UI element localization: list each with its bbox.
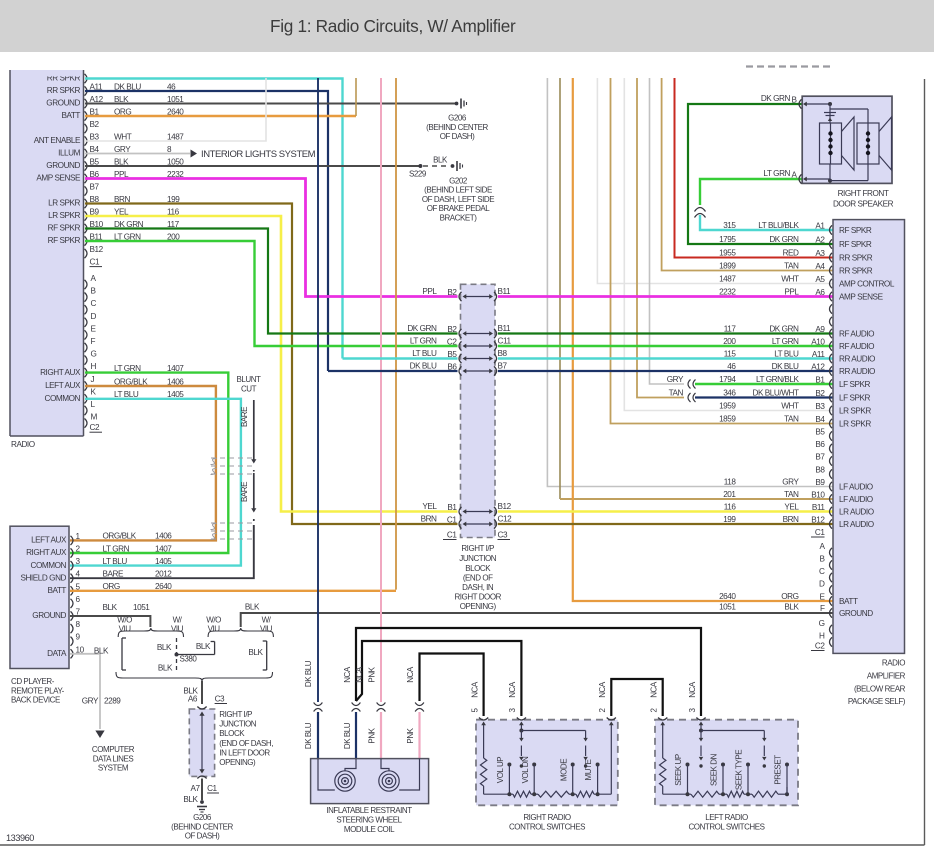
- svg-text:H: H: [91, 362, 97, 371]
- svg-text:1051: 1051: [167, 95, 184, 104]
- svg-text:MODE: MODE: [559, 759, 568, 781]
- wire WHT 1487 top to amp A5: [597, 78, 833, 284]
- svg-text:DASH, IN: DASH, IN: [462, 583, 494, 592]
- svg-text:SYSTEM: SYSTEM: [98, 764, 129, 773]
- svg-text:DK GRN: DK GRN: [407, 324, 437, 333]
- svg-text:DK GRN: DK GRN: [769, 324, 799, 333]
- svg-text:RIGHT RADIO: RIGHT RADIO: [523, 813, 571, 822]
- svg-text:LF SPKR: LF SPKR: [839, 380, 871, 389]
- cd player pins and labels: [20, 532, 172, 659]
- coil connector PNK: [368, 666, 386, 758]
- svg-text:DK GRN: DK GRN: [769, 235, 799, 244]
- computer data lines system label: [92, 745, 135, 773]
- svg-text:C: C: [91, 299, 97, 308]
- svg-text:OF DASH): OF DASH): [185, 832, 220, 841]
- svg-text:MODULE COIL: MODULE COIL: [344, 825, 395, 834]
- wire DK BLU/WHT 346 splice to amp B2: [695, 396, 833, 398]
- right switches tap MUTE: [584, 759, 599, 796]
- svg-text:CONTROL SWITCHES: CONTROL SWITCHES: [509, 823, 585, 832]
- cable shield dashes: [211, 458, 257, 540]
- wire AMP SENSE PPL 2232 radio B6 to junction B2: [85, 179, 458, 297]
- svg-text:RR SPKR: RR SPKR: [47, 86, 81, 95]
- option segment BLK w viu 2: [248, 641, 266, 670]
- wire ILLUM GRY 8 radio B4 to interior lights: [85, 153, 190, 155]
- svg-text:RR SPKR: RR SPKR: [839, 254, 873, 263]
- svg-text:TAN: TAN: [669, 388, 684, 397]
- sir coil internal wiring: [318, 759, 420, 790]
- svg-text:W/: W/: [262, 616, 272, 625]
- svg-text:RR AUDIO: RR AUDIO: [839, 367, 875, 376]
- wire BRN 199 junction C12 to amp B12: [498, 523, 833, 525]
- svg-text:AMPLIFIER: AMPLIFIER: [867, 671, 906, 680]
- ground G206 bottom: [171, 800, 233, 841]
- svg-text:JUNCTION: JUNCTION: [219, 720, 257, 729]
- svg-text:1955: 1955: [719, 248, 736, 257]
- left switches label: [688, 813, 764, 832]
- svg-text:B7: B7: [498, 362, 508, 371]
- wire YEL 116 junction B12 to amp B11: [498, 510, 833, 513]
- left switches switch arms: [699, 729, 767, 768]
- svg-text:SEEK TYPE: SEEK TYPE: [735, 750, 744, 790]
- wire RR SPKR DK BLU 46 radio A11 to junction B6: [85, 91, 328, 371]
- wire DATA GRY 2289 CD pin 10 to computer data lines: [70, 654, 121, 738]
- svg-text:(BEHIND LEFT SIDE: (BEHIND LEFT SIDE: [424, 186, 492, 195]
- svg-text:(END OF DASH,: (END OF DASH,: [219, 739, 273, 748]
- svg-text:LT GRN: LT GRN: [103, 544, 130, 553]
- svg-text:RADIO: RADIO: [882, 659, 905, 668]
- wire DK BLU from top to SIR coil connector: [317, 78, 319, 702]
- wire TAN 1899 top to amp A4: [662, 78, 833, 271]
- svg-text:RIGHT AUX: RIGHT AUX: [26, 548, 67, 557]
- svg-text:ANT ENABLE: ANT ENABLE: [34, 136, 81, 145]
- wire NCA coil PNK branch to right radio switches pin 5: [420, 654, 484, 717]
- svg-text:B7: B7: [815, 453, 825, 462]
- svg-text:MUTE: MUTE: [584, 759, 593, 780]
- svg-text:WHT: WHT: [781, 401, 799, 410]
- svg-text:STEERING WHEEL: STEERING WHEEL: [336, 816, 402, 825]
- svg-text:A2: A2: [815, 236, 825, 245]
- twisted pair marker: [695, 208, 706, 218]
- top crop mask: [0, 52, 934, 70]
- title text: [270, 16, 516, 36]
- svg-text:GROUND: GROUND: [46, 99, 80, 108]
- left switches pin 3: [688, 681, 706, 730]
- svg-text:PPL: PPL: [422, 287, 437, 296]
- svg-text:RIGHT AUX: RIGHT AUX: [40, 368, 81, 377]
- svg-text:46: 46: [727, 362, 736, 371]
- svg-text:BLOCK: BLOCK: [465, 564, 491, 573]
- junction block 2 label: [219, 710, 273, 767]
- wire DK GRN 1795 amp A2 to speaker B: [688, 104, 833, 244]
- svg-text:LT GRN: LT GRN: [772, 337, 799, 346]
- svg-text:DK BLU/WHT: DK BLU/WHT: [753, 388, 799, 397]
- shield drain wire BARE middle segment: [240, 470, 256, 513]
- junction block 2 top pin: [197, 707, 206, 710]
- wire ORG continuation up from CD pin 5: [395, 78, 397, 590]
- svg-text:F: F: [820, 604, 825, 613]
- svg-text:BLK: BLK: [245, 602, 260, 611]
- diagram id 133960: [6, 833, 34, 843]
- svg-text:JUNCTION: JUNCTION: [459, 554, 497, 563]
- ground option brace 2: [206, 616, 273, 638]
- svg-text:PNK: PNK: [368, 666, 377, 682]
- cd player block label: [11, 677, 65, 705]
- svg-text:OPENING): OPENING): [460, 602, 497, 611]
- svg-text:BARE: BARE: [240, 407, 249, 427]
- wire COMMON LT BLU 1405 radio K to CD pin 3: [70, 399, 241, 566]
- right switches block body: [476, 720, 618, 806]
- svg-text:SEEK UP: SEEK UP: [674, 754, 683, 786]
- svg-text:RF AUDIO: RF AUDIO: [839, 330, 874, 339]
- svg-text:115: 115: [724, 349, 737, 358]
- junction block main bottom pin labels: [443, 531, 510, 540]
- coil connector NCA to DK BLU: [343, 666, 364, 758]
- svg-text:B11: B11: [498, 324, 512, 333]
- svg-text:BATT: BATT: [61, 111, 80, 120]
- svg-text:BLOCK: BLOCK: [219, 729, 245, 738]
- wire LR SPKR YEL 116 radio B9 to junction B1: [85, 216, 458, 512]
- wire GRY to splice at amp B1: [650, 78, 685, 384]
- left switches tap SEEK UP: [674, 754, 689, 796]
- svg-text:118: 118: [724, 477, 737, 486]
- svg-text:LT BLU: LT BLU: [103, 557, 128, 566]
- left switches block body: [655, 720, 798, 806]
- svg-text:G: G: [91, 350, 97, 359]
- sir coil block label: [326, 806, 412, 834]
- svg-text:GROUND: GROUND: [839, 609, 873, 618]
- option segment BLK w/o viu 1: [94, 638, 126, 670]
- svg-text:BRN: BRN: [783, 515, 799, 524]
- svg-text:(BELOW REAR: (BELOW REAR: [854, 684, 906, 693]
- svg-text:SHIELD GND: SHIELD GND: [20, 573, 66, 582]
- svg-text:BARE: BARE: [240, 482, 249, 502]
- speaker block body: [802, 96, 892, 183]
- wire RR SPKR LT BLU (cut row) radio to junction B5: [85, 79, 343, 359]
- option segment dashed with splice S380: [157, 638, 198, 672]
- left switches tap SEEK TYPE: [735, 750, 750, 796]
- wire TAN to splice at amp B2: [637, 78, 684, 398]
- svg-text:OF BRAKE PEDAL: OF BRAKE PEDAL: [427, 204, 491, 213]
- wire label DK GRN B: [761, 94, 791, 103]
- svg-text:BATT: BATT: [47, 586, 66, 595]
- junction block main body: [461, 284, 496, 537]
- svg-text:LT GRN: LT GRN: [763, 169, 790, 178]
- svg-text:1405: 1405: [155, 557, 172, 566]
- svg-text:PPL: PPL: [784, 287, 799, 296]
- wire BLK from brace 2 to amp F: [241, 602, 833, 627]
- wire TAN 201 top to amp B10: [560, 78, 833, 499]
- left switches resistor vertical: [660, 758, 666, 794]
- diagram bottom border: [0, 844, 925, 846]
- svg-text:RR SPKR: RR SPKR: [839, 267, 873, 276]
- svg-text:OPENING): OPENING): [219, 758, 256, 767]
- svg-text:LF SPKR: LF SPKR: [839, 394, 871, 403]
- svg-text:LT GRN/BLK: LT GRN/BLK: [756, 375, 800, 384]
- left switches tap PRESET: [774, 755, 789, 796]
- svg-text:RADIO: RADIO: [11, 440, 35, 449]
- svg-text:GRY: GRY: [667, 375, 684, 384]
- right switches switch arms: [519, 729, 588, 768]
- svg-text:LEFT RADIO: LEFT RADIO: [705, 813, 748, 822]
- svg-text:BLK: BLK: [94, 646, 109, 655]
- svg-text:B2: B2: [90, 120, 100, 129]
- svg-text:LR AUDIO: LR AUDIO: [839, 508, 874, 517]
- wire GRY 118 top to amp B9: [547, 78, 833, 487]
- svg-text:1051: 1051: [719, 603, 736, 612]
- svg-text:AMP CONTROL: AMP CONTROL: [839, 280, 895, 289]
- svg-text:LR SPKR: LR SPKR: [839, 407, 871, 416]
- svg-text:RR AUDIO: RR AUDIO: [839, 355, 875, 364]
- svg-text:ORG/BLK: ORG/BLK: [103, 532, 137, 541]
- svg-text:RIGHT FRONT: RIGHT FRONT: [838, 189, 889, 198]
- svg-text:LF AUDIO: LF AUDIO: [839, 483, 873, 492]
- svg-text:A11: A11: [812, 350, 826, 359]
- shield drain wire BARE 2012 to CD pin 4: [70, 519, 254, 578]
- wire NCA coil to right radio switches pin 3: [356, 641, 521, 716]
- svg-text:RF SPKR: RF SPKR: [839, 226, 872, 235]
- wire GROUND BLK 1050 radio B5 to splice S229: [85, 165, 420, 167]
- svg-text:BLK: BLK: [158, 663, 173, 672]
- svg-text:B5: B5: [447, 350, 457, 359]
- svg-text:BLK: BLK: [103, 603, 118, 612]
- svg-text:LF AUDIO: LF AUDIO: [839, 495, 873, 504]
- right switches pin 3: [508, 681, 526, 730]
- svg-text:NCA: NCA: [598, 681, 607, 698]
- svg-text:INFLATABLE RESTRAINT: INFLATABLE RESTRAINT: [326, 806, 412, 815]
- right switches pin 2: [598, 681, 616, 794]
- svg-text:346: 346: [723, 388, 736, 397]
- svg-text:DK BLU: DK BLU: [304, 722, 313, 749]
- svg-text:B1: B1: [447, 503, 457, 512]
- svg-text:BLUNT: BLUNT: [237, 375, 262, 384]
- junction block main pins: [407, 287, 512, 529]
- svg-text:BLK: BLK: [114, 157, 129, 166]
- svg-text:J: J: [91, 375, 95, 384]
- svg-text:DK BLU: DK BLU: [410, 362, 437, 371]
- svg-text:VOL DN: VOL DN: [521, 756, 530, 783]
- svg-text:LR AUDIO: LR AUDIO: [839, 520, 874, 529]
- svg-text:B6: B6: [815, 440, 825, 449]
- svg-text:NCA: NCA: [650, 681, 659, 698]
- svg-text:C: C: [819, 567, 825, 576]
- svg-text:RIGHT I/P: RIGHT I/P: [219, 710, 252, 719]
- svg-text:AMP SENSE: AMP SENSE: [839, 293, 884, 302]
- svg-text:CONTROL SWITCHES: CONTROL SWITCHES: [688, 823, 764, 832]
- svg-text:B5: B5: [815, 428, 825, 437]
- svg-text:C1: C1: [207, 784, 217, 793]
- junction block 2 pin C3 labels: [183, 687, 227, 704]
- svg-text:C3: C3: [498, 531, 508, 540]
- wire BLK junction block 2 to G206: [183, 779, 202, 805]
- svg-text:NCA: NCA: [406, 666, 415, 683]
- svg-text:BLK: BLK: [114, 95, 129, 104]
- svg-text:LT BLU: LT BLU: [774, 349, 799, 358]
- splice S229: [409, 164, 427, 178]
- svg-text:RF AUDIO: RF AUDIO: [839, 342, 874, 351]
- svg-text:BLK: BLK: [433, 155, 448, 164]
- svg-text:C2: C2: [90, 423, 100, 432]
- wire NCA coil to left radio switches pin 3: [356, 628, 701, 716]
- svg-text:1959: 1959: [719, 401, 736, 410]
- svg-text:C1: C1: [815, 528, 825, 537]
- svg-text:COMMON: COMMON: [44, 394, 80, 403]
- wire RED 1955 top to amp A3: [675, 78, 834, 258]
- svg-text:G202: G202: [449, 176, 468, 185]
- svg-text:LT BLU/BLK: LT BLU/BLK: [758, 221, 799, 230]
- svg-text:COMMON: COMMON: [30, 561, 66, 570]
- svg-text:OF DASH): OF DASH): [440, 132, 475, 141]
- svg-text:C12: C12: [498, 515, 513, 524]
- ground option brace 1: [117, 616, 183, 638]
- svg-text:W/O: W/O: [206, 616, 221, 625]
- speaker block label: [833, 189, 894, 209]
- radio pins and labels: [34, 74, 104, 433]
- svg-text:GROUND: GROUND: [32, 611, 66, 620]
- speaker pin B: [791, 95, 830, 108]
- svg-text:B10: B10: [811, 491, 825, 500]
- wire GROUND BLK 1051 radio A12 to G206: [85, 103, 455, 105]
- dashed wire BLK S229 to G202: [423, 155, 449, 166]
- radio block body: [10, 70, 84, 437]
- svg-text:LR SPKR: LR SPKR: [48, 199, 80, 208]
- radio block label: [11, 440, 35, 449]
- svg-text:F: F: [91, 337, 96, 346]
- svg-text:B12: B12: [498, 502, 512, 511]
- speaker wiring: [824, 102, 868, 183]
- svg-text:S380: S380: [180, 655, 198, 664]
- svg-text:YEL: YEL: [784, 502, 799, 511]
- svg-text:NCA: NCA: [688, 681, 697, 698]
- svg-text:S229: S229: [409, 169, 427, 178]
- svg-text:VOL UP: VOL UP: [496, 757, 505, 783]
- svg-text:117: 117: [724, 324, 737, 333]
- wire TAN 1859 top to amp B4: [611, 78, 834, 424]
- svg-text:RF SPKR: RF SPKR: [839, 240, 872, 249]
- svg-text:315: 315: [723, 221, 736, 230]
- ground G206 behind dash: [426, 99, 488, 142]
- wire RF SPKR DK GRN 117 radio B10 to junction B2: [85, 229, 458, 334]
- right switches label: [509, 813, 585, 832]
- wire RIGHT AUX LT GRN 1407 radio H to CD pin 2: [70, 373, 228, 553]
- svg-text:OF DASH, LEFT SIDE: OF DASH, LEFT SIDE: [422, 195, 494, 204]
- svg-text:GROUND: GROUND: [46, 161, 80, 170]
- svg-text:A9: A9: [815, 325, 825, 334]
- wire LT GRN speaker A segment: [700, 179, 802, 205]
- left switches resistor bus: [663, 791, 787, 797]
- svg-text:B4: B4: [815, 415, 825, 424]
- svg-text:INTERIOR LIGHTS SYSTEM: INTERIOR LIGHTS SYSTEM: [201, 149, 316, 160]
- svg-text:B3: B3: [815, 402, 825, 411]
- svg-text:2232: 2232: [719, 287, 736, 296]
- svg-text:D: D: [819, 580, 825, 589]
- svg-text:RIGHT I/P: RIGHT I/P: [461, 544, 494, 553]
- right switches resistor vertical: [480, 758, 486, 794]
- splice TAN label row B2: [669, 388, 696, 402]
- svg-text:BACK DEVICE: BACK DEVICE: [11, 696, 60, 705]
- svg-text:BRACKET): BRACKET): [440, 214, 478, 223]
- sir coil block body: [311, 759, 429, 804]
- svg-text:C1: C1: [447, 531, 457, 540]
- svg-text:LT BLU: LT BLU: [412, 349, 437, 358]
- svg-text:ORG: ORG: [781, 592, 798, 601]
- wire ORG 2640 top to amp E: [573, 78, 833, 601]
- svg-text:(BEHIND CENTER: (BEHIND CENTER: [426, 123, 488, 132]
- svg-text:A4: A4: [815, 262, 825, 271]
- svg-text:A5: A5: [815, 275, 825, 284]
- svg-text:YEL: YEL: [422, 502, 437, 511]
- wire PPL 2232 junction B11 to amp A6: [498, 295, 833, 298]
- speaker icon right: [857, 117, 892, 170]
- svg-text:BLK: BLK: [196, 642, 211, 651]
- wire S380 to option segment 4: [177, 654, 215, 656]
- junction block main label: [454, 544, 501, 611]
- svg-text:A3: A3: [815, 249, 825, 258]
- speaker pin A: [791, 170, 830, 183]
- svg-text:WHT: WHT: [114, 132, 132, 141]
- svg-text:200: 200: [723, 337, 736, 346]
- svg-text:1487: 1487: [719, 274, 736, 283]
- right switches pin 5: [470, 681, 488, 758]
- wire PNK from top to SIR coil connector: [380, 78, 382, 702]
- arrow to interior lights system: [191, 149, 316, 160]
- wire TAN continuation up from radio B1: [355, 78, 357, 116]
- svg-text:B12: B12: [811, 516, 825, 525]
- svg-text:B11: B11: [812, 503, 826, 512]
- svg-text:B8: B8: [815, 466, 825, 475]
- ground merge brace: [116, 672, 273, 704]
- cd ground label BLK 1051: [103, 603, 151, 612]
- amplifier pin rows A and B: [719, 221, 895, 529]
- svg-text:C3: C3: [215, 695, 225, 704]
- svg-text:G206: G206: [448, 114, 467, 123]
- svg-text:(END OF: (END OF: [463, 574, 493, 583]
- svg-text:116: 116: [724, 502, 737, 511]
- wire LT BLU 115 junction B8 to amp A11: [343, 357, 834, 359]
- svg-text:VIU: VIU: [119, 624, 132, 633]
- svg-text:PRESET: PRESET: [774, 755, 783, 785]
- svg-text:DATA: DATA: [47, 649, 67, 658]
- svg-text:LEFT AUX: LEFT AUX: [31, 536, 67, 545]
- svg-text:TAN: TAN: [784, 414, 799, 423]
- svg-text:A6: A6: [188, 695, 198, 704]
- junction block 2 internal wire: [199, 712, 204, 774]
- wire label LT GRN A: [763, 169, 790, 178]
- svg-text:BLK: BLK: [784, 603, 799, 612]
- svg-text:VIU: VIU: [171, 624, 184, 633]
- svg-text:CUT: CUT: [241, 385, 257, 394]
- svg-text:1795: 1795: [719, 235, 736, 244]
- svg-text:1407: 1407: [155, 544, 172, 553]
- svg-text:LR SPKR: LR SPKR: [839, 420, 871, 429]
- svg-text:LEFT AUX: LEFT AUX: [45, 381, 81, 390]
- svg-text:GRY: GRY: [82, 697, 99, 706]
- svg-text:IN LEFT DOOR: IN LEFT DOOR: [219, 748, 270, 757]
- svg-text:1050: 1050: [167, 157, 184, 166]
- svg-text:VIU: VIU: [260, 624, 273, 633]
- svg-text:RF SPKR: RF SPKR: [48, 224, 81, 233]
- wire DK GRN 117 junction B11 to amp A9: [498, 332, 833, 334]
- svg-text:WHT: WHT: [781, 274, 799, 283]
- svg-text:B8: B8: [498, 349, 508, 358]
- wire DK BLU 46 junction B7 to amp A12: [328, 370, 833, 372]
- sir coil spiral left: [335, 771, 355, 791]
- svg-text:SEEK DN: SEEK DN: [710, 753, 719, 786]
- svg-text:B2: B2: [447, 325, 457, 334]
- amplifier pin rows C1 to C2: [719, 528, 873, 651]
- svg-text:DATA LINES: DATA LINES: [93, 755, 134, 764]
- splice GRY label row B1: [667, 375, 696, 389]
- svg-text:M: M: [91, 413, 98, 422]
